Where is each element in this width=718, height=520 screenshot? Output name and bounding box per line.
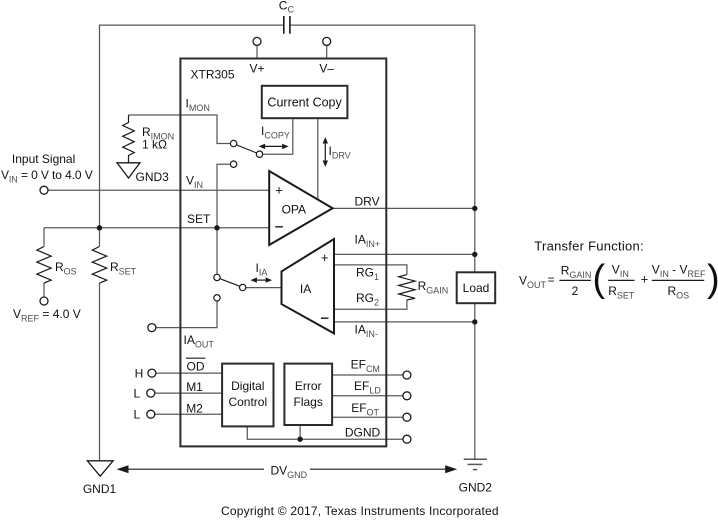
op-amp OPA <box>269 171 332 245</box>
switch S1 contact c <box>230 161 236 167</box>
wire IA output to switch <box>246 287 282 289</box>
svg-text:(: ( <box>593 258 606 300</box>
node IAOUT terminal <box>148 324 156 332</box>
svg-text:Control: Control <box>228 395 267 409</box>
svg-text:+: + <box>275 183 283 198</box>
resistor RGAIN <box>399 275 415 300</box>
wire VIN input to OPA plus <box>48 189 269 191</box>
node VREF terminal <box>40 297 48 305</box>
wire IDRV arrow <box>323 137 328 167</box>
svg-text:): ) <box>707 258 718 300</box>
svg-text:+: + <box>321 250 329 265</box>
wire top-right net from capacitor to right rail down to Load <box>290 25 475 272</box>
wire M2 pin <box>155 413 222 415</box>
switch S2 lever <box>220 279 240 287</box>
svg-text:Transfer Function:: Transfer Function: <box>534 238 644 253</box>
wire ROS bottom lead to VREF terminal <box>43 283 45 297</box>
node junction SET-switch <box>214 225 219 230</box>
ground GND1 <box>87 461 113 476</box>
resistor RIMON <box>123 115 135 163</box>
svg-text:Error: Error <box>295 379 322 393</box>
svg-text:OD: OD <box>187 359 205 373</box>
switch S1 contact b <box>256 151 262 157</box>
label IA minus input <box>321 317 329 319</box>
wire right rail Load bottom to GND2 <box>474 303 476 459</box>
label equation divide bar 1 <box>559 279 591 281</box>
node L terminal M1 <box>147 389 155 397</box>
node junction IAIN+ <box>472 252 477 257</box>
wire V+ pin stem <box>256 46 258 59</box>
wire RG2 to RGAIN <box>334 300 407 309</box>
node H terminal <box>148 369 156 377</box>
wire DRV output to right rail <box>333 207 475 209</box>
svg-text:L: L <box>134 408 141 422</box>
svg-text:SET: SET <box>187 212 211 226</box>
svg-text:GND1: GND1 <box>83 482 117 496</box>
svg-text:Digital: Digital <box>231 379 264 393</box>
node junction DRV <box>472 206 477 211</box>
wire SET line to OPA minus <box>44 227 269 229</box>
node junction SET-left <box>97 225 102 230</box>
switch S2 contact a <box>214 274 220 280</box>
svg-text:GND2: GND2 <box>459 481 493 495</box>
capacitor CC <box>284 16 290 34</box>
svg-text:H: H <box>135 367 144 381</box>
Error Flags block <box>284 364 332 425</box>
svg-text:GND3: GND3 <box>136 170 170 184</box>
wire IAIN+ to right rail <box>334 253 475 255</box>
svg-text:DRV: DRV <box>355 195 380 209</box>
Load block <box>457 272 496 303</box>
wire V- pin stem <box>326 46 328 59</box>
Current Copy block <box>262 86 348 118</box>
svg-text:L: L <box>134 387 141 401</box>
Digital Control block <box>222 364 273 427</box>
svg-text:+: + <box>641 272 649 287</box>
node EFOT terminal <box>403 413 411 421</box>
wire IAOUT terminal to switch lower throw <box>156 301 217 328</box>
svg-text:Flags: Flags <box>294 395 323 409</box>
node V- terminal <box>323 37 331 45</box>
svg-text:Current Copy: Current Copy <box>267 96 342 110</box>
node junction DGND <box>297 437 302 442</box>
switch S2 contact c <box>214 295 220 301</box>
wire RG1 to RGAIN <box>334 265 407 275</box>
svg-text:Copyright © 2017, Texas Instru: Copyright © 2017, Texas Instruments Inco… <box>221 504 499 518</box>
wire EFLD pin <box>332 395 403 397</box>
resistor RSET <box>92 247 106 284</box>
wire IDRV Current Copy to OPA <box>317 118 319 199</box>
switch S1 lever <box>237 145 257 153</box>
svg-text:Input Signal: Input Signal <box>12 152 75 166</box>
wire ROS top lead <box>43 228 45 247</box>
svg-text:M1: M1 <box>186 380 203 394</box>
wire ICOPY switch to Current Copy <box>263 118 293 154</box>
wire DGND net <box>247 425 402 439</box>
ground GND3 <box>117 163 140 178</box>
wire M1 pin <box>155 392 222 394</box>
wire IMON pin to switch <box>129 115 231 144</box>
node DGND terminal <box>403 435 411 443</box>
svg-text:2: 2 <box>572 284 579 298</box>
switch S2 contact b <box>240 284 246 290</box>
wire ICOPY arrow <box>259 144 289 149</box>
svg-text:OPA: OPA <box>282 202 306 216</box>
label OPA minus input <box>275 226 283 228</box>
amplifier IA <box>282 239 335 333</box>
XTR305 box U1 <box>180 59 386 447</box>
switch S1 contact a <box>230 140 236 146</box>
svg-text:V–: V– <box>319 62 334 76</box>
wire OD pin <box>156 372 222 374</box>
wire EFCM pin <box>332 374 403 376</box>
node L terminal M2 <box>147 410 155 418</box>
svg-text:=: = <box>548 273 555 287</box>
svg-text:M2: M2 <box>186 402 203 416</box>
wire EFOT pin <box>332 416 403 418</box>
node V+ terminal <box>253 37 261 45</box>
wire DVGND span arrow <box>117 465 458 473</box>
wire IIA arrow <box>250 277 272 282</box>
resistor ROS <box>37 247 51 284</box>
node EFCM terminal <box>403 371 411 379</box>
wire switch lower throw to SET node <box>217 164 230 274</box>
node EFLD terminal <box>403 392 411 400</box>
wire IAIN- to right rail <box>334 321 475 323</box>
node input terminal <box>40 186 48 194</box>
svg-text:Load: Load <box>463 281 490 295</box>
svg-text:IA: IA <box>300 282 311 296</box>
svg-text:XTR305: XTR305 <box>191 68 235 82</box>
label equation divide bar 3 <box>652 279 704 281</box>
svg-text:DGND: DGND <box>345 425 381 439</box>
svg-text:1 kΩ: 1 kΩ <box>142 138 167 152</box>
svg-text:V+: V+ <box>249 62 264 76</box>
wire left net below RSET to GND1 <box>99 283 101 461</box>
ground GND2 <box>464 459 487 469</box>
label equation divide bar 2 <box>608 279 634 281</box>
wire top-left net to capacitor and down left side <box>100 25 284 246</box>
node junction IAIN- <box>472 319 477 324</box>
